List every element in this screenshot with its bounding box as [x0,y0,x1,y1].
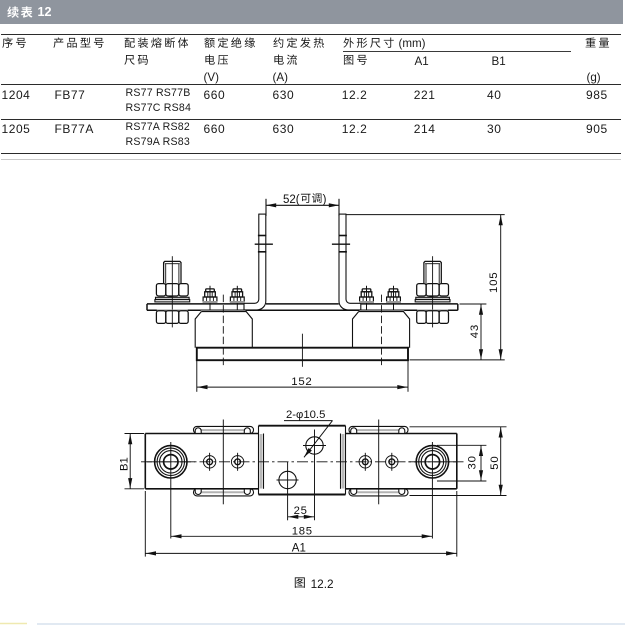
svg-text:105: 105 [488,272,500,293]
svg-text:B1: B1 [119,457,131,471]
centerline plan horizontal [141,461,464,463]
svg-text:30: 30 [467,455,479,469]
centerline left block [222,295,224,367]
small bolts on plate [203,286,218,312]
terminal stud left (plan) [147,442,195,539]
dimension 105 [346,215,505,360]
plan view outline [145,434,457,489]
dimension 185 [171,525,433,538]
dimension 50 [410,427,507,496]
base bar front view [197,348,408,361]
svg-text:185: 185 [292,525,313,537]
svg-text:12.2: 12.2 [311,577,334,591]
hex bolt assembly left [155,256,190,327]
dimension 30 [437,445,486,481]
svg-text:A1: A1 [292,542,306,554]
dimension 152 [197,348,408,392]
plan central base section [259,426,346,495]
dimension A1 [145,491,457,557]
dimension B1 [119,434,145,489]
block inner edge shading [260,434,263,489]
dimension 43 [460,304,487,360]
svg-text:52(: 52( [283,194,300,206]
svg-text:50: 50 [489,456,501,470]
centerline small-bolt pair left (plan) [222,420,224,505]
svg-text:43: 43 [469,324,481,338]
small bolts (plan) [203,453,215,471]
svg-text:2-φ10.5: 2-φ10.5 [286,409,325,421]
footer rule [37,623,625,625]
caption figure 12.2 [295,577,305,588]
blade terminal left [244,214,273,310]
dimension 25 [288,505,315,519]
fuse clip tabs [194,426,254,433]
hex bolt assembly right [415,256,450,327]
porcelain block left [195,311,252,348]
centerline small-bolt pair right (plan) [378,420,380,505]
mounting hole upper [303,430,326,521]
dimension 52 adjustable [266,199,339,216]
centerline front center [301,334,303,367]
mounting plate front view [147,304,458,310]
centerline right block [381,295,383,367]
leader 2-dia10.5 [284,409,333,457]
svg-text:25: 25 [294,505,308,517]
svg-text:152: 152 [291,376,312,388]
svg-text:): ) [323,194,327,206]
porcelain block right [353,311,410,348]
mounting hole lower [277,462,299,520]
blade terminal right [332,214,361,310]
